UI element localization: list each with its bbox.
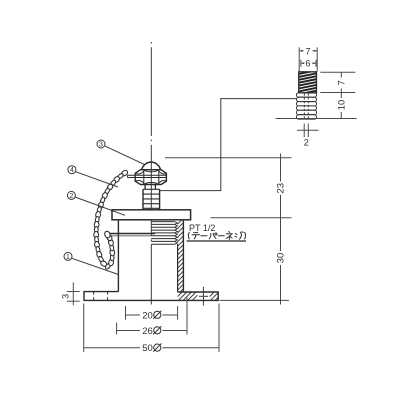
svg-text:3: 3: [99, 142, 103, 149]
section hatching body wall: [178, 220, 184, 292]
balloon 4: [68, 166, 76, 175]
stud detail threaded upper part: [299, 70, 317, 94]
stud dim 2 bottom: [297, 124, 318, 138]
svg-text:6: 6: [305, 59, 310, 69]
flange bolt hole hidden lines (left): [94, 292, 108, 300]
cap plate (part 2): [112, 210, 191, 220]
svg-text:2: 2: [69, 193, 73, 200]
leader line part 3: [105, 146, 144, 164]
dia symbol 20: [153, 311, 161, 319]
chain (part 4): [94, 169, 129, 270]
leader line part 2: [75, 197, 125, 215]
internal PT thread (section): [151, 222, 177, 245]
flange bolt hole centerline (right): [199, 287, 208, 306]
flange section hatch right of hole: [210, 292, 219, 300]
svg-text:3: 3: [61, 294, 71, 299]
svg-text:1: 1: [66, 254, 70, 261]
bottom dim 50 dia: [84, 304, 219, 353]
stud hidden hole lines: [304, 94, 308, 119]
centerline main vertical axis: [150, 42, 152, 305]
dia symbol 50: [153, 344, 161, 352]
svg-text:23: 23: [276, 183, 287, 194]
chain ring around nipple groove: [127, 175, 166, 177]
leader polyline to stud detail: [160, 99, 296, 191]
svg-text:30: 30: [276, 253, 287, 264]
dim 3 flange thickness: [67, 282, 80, 305]
balloon 2: [67, 191, 75, 200]
body bore wall right: [177, 244, 179, 292]
stud right ext line top: [320, 71, 355, 73]
svg-text:20: 20: [142, 310, 153, 321]
dim extension line cap bottom: [211, 217, 292, 219]
bottom dim 20 dia: [126, 306, 178, 320]
stud baseline: [276, 118, 357, 120]
balloon 3: [97, 140, 105, 149]
flange outline: [84, 292, 218, 301]
stud detail ribbed lower part: [297, 93, 317, 119]
stud dim line 7 right: [340, 72, 342, 92]
body outer wall right (section): [182, 220, 184, 292]
flange section hatch left of hole: [178, 292, 198, 300]
nipple threaded shank: [143, 189, 160, 210]
dim line 30: [280, 218, 282, 305]
svg-text:7: 7: [336, 80, 347, 85]
svg-text:2: 2: [304, 138, 309, 148]
pin on body for chain: [109, 234, 156, 236]
body outer wall left (part 1): [117, 220, 119, 292]
katakana (taper thread) label: [188, 232, 245, 240]
dim extension line flange bottom: [220, 299, 290, 301]
svg-text:50: 50: [142, 343, 153, 354]
svg-text:10: 10: [336, 100, 347, 111]
nipple neck below hex: [145, 185, 155, 190]
svg-text:PT 1/2: PT 1/2: [189, 223, 215, 233]
stud right ext line mid: [320, 92, 355, 94]
bottom dim 26 dia: [117, 298, 187, 335]
stud dim 7 top: [299, 47, 317, 71]
stud dim line 10 right: [340, 93, 342, 119]
leader line part 1: [72, 258, 118, 274]
svg-text:26: 26: [142, 326, 153, 337]
leader line part 4: [76, 172, 118, 187]
stud dim 6: [301, 60, 316, 67]
dim line 23: [280, 154, 282, 218]
dim extension line ball top: [165, 157, 292, 159]
nipple hex: [135, 170, 166, 185]
svg-text:7: 7: [305, 46, 310, 56]
svg-text:4: 4: [70, 167, 74, 174]
dia symbol 26: [153, 326, 161, 334]
leader underline for PT label: [187, 240, 247, 242]
nipple ball dome (part 3): [142, 162, 161, 170]
balloon 1: [64, 252, 72, 261]
